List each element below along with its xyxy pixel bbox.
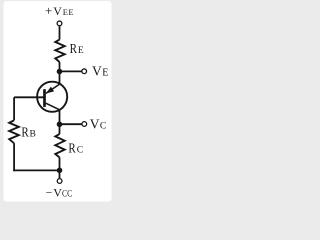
node VC junction [57,122,63,128]
resistor RB [9,120,19,143]
node VE junction [57,69,63,75]
resistor RC [55,134,64,158]
wire [59,62,61,84]
transistor Q1 emitter arrow [46,87,54,94]
terminal +VEE [57,21,62,26]
wire [13,169,59,171]
wire [13,97,15,120]
white card background [4,1,112,202]
wire [59,110,61,134]
transistor Q1 emitter [46,84,60,93]
terminal VC [82,122,87,127]
transistor Q1 body [37,82,67,112]
wire [59,26,61,39]
wire base lead [14,96,44,98]
terminal VE [82,69,87,74]
wire [59,158,61,179]
transistor Q1 base bar [43,89,46,107]
transistor Q1 collector [46,103,60,110]
ground junction [57,168,63,174]
terminal -VCC [57,179,62,184]
wire [60,123,82,125]
wire [60,70,82,72]
resistor RE [55,40,64,62]
wire [13,143,15,171]
